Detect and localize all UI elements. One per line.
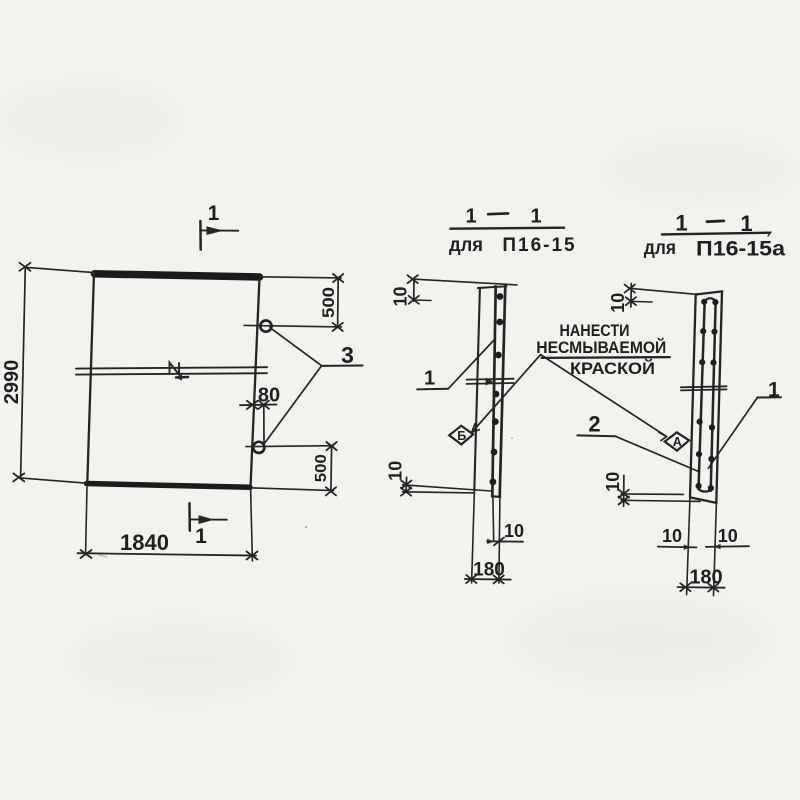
svg-text:для: для <box>644 238 676 259</box>
middle break line with arrow <box>467 378 514 381</box>
panel top cap <box>478 286 507 288</box>
svg-text:1: 1 <box>530 206 541 228</box>
right panel bottom cap <box>690 497 716 503</box>
mark diamond A <box>665 432 690 450</box>
svg-text:10: 10 <box>504 521 524 541</box>
dimension 1840 <box>86 487 87 553</box>
svg-text:1: 1 <box>675 210 687 235</box>
dimension 10 bottom (strip) <box>492 497 495 541</box>
dimension 10 bottom left (right view) <box>658 546 697 549</box>
svg-text:НЕСМЫВАЕМОЙ: НЕСМЫВАЕМОЙ <box>536 338 666 357</box>
svg-text:500: 500 <box>313 454 330 482</box>
svg-text:1: 1 <box>424 367 435 389</box>
leader from paint note to B <box>473 355 541 432</box>
svg-text:1: 1 <box>465 206 476 228</box>
dimension 180 (right view) <box>678 586 725 589</box>
rebar dots <box>490 293 504 485</box>
right panel top cap <box>696 291 723 294</box>
panel left edge <box>87 272 94 483</box>
svg-text:10: 10 <box>718 526 738 546</box>
mark diamond B <box>449 426 473 445</box>
bottom extension lines (right view) <box>687 498 690 595</box>
rebar loop left line <box>699 301 705 490</box>
svg-text:1: 1 <box>208 202 220 225</box>
lifting loop hook 1 <box>260 321 271 332</box>
svg-text:для: для <box>449 235 483 256</box>
right panel outer right line <box>716 291 722 502</box>
rebar strip left line <box>492 286 495 496</box>
top extension line <box>413 279 517 285</box>
svg-text:П16-15а: П16-15а <box>696 237 785 260</box>
dimension 180 (middle) <box>472 491 475 584</box>
svg-text:1840: 1840 <box>120 530 169 555</box>
panel right edge <box>251 278 260 486</box>
rebar loop bottom arc <box>699 489 711 492</box>
panel bottom edge (heavy) <box>87 484 251 488</box>
lifting loop hook 2 <box>253 442 264 453</box>
dimension 2990 <box>21 267 26 478</box>
panel top edge (heavy) <box>95 274 260 277</box>
svg-text:180: 180 <box>473 560 505 581</box>
svg-text:10: 10 <box>391 286 411 306</box>
dimension 10 top left <box>413 280 415 302</box>
svg-text:10: 10 <box>608 293 628 313</box>
svg-text:Б: Б <box>457 429 466 443</box>
svg-text:180: 180 <box>689 567 722 589</box>
leader from paint note to A <box>541 355 667 437</box>
svg-text:10: 10 <box>386 461 406 481</box>
svg-text:2990: 2990 <box>1 360 23 405</box>
svg-text:КРАСКОЙ: КРАСКОЙ <box>570 359 655 378</box>
rebar strip right line <box>500 286 506 497</box>
svg-text:П16-15: П16-15 <box>502 235 576 256</box>
right panel outer left line <box>690 294 696 497</box>
break N-mark <box>170 363 180 375</box>
svg-text:500: 500 <box>319 287 338 318</box>
right break line <box>681 386 727 387</box>
panel outer face line <box>474 288 480 490</box>
dimension 500 top <box>260 277 341 278</box>
rebar dots right view <box>696 299 719 492</box>
svg-text:2: 2 <box>588 412 600 437</box>
panel break line <box>76 367 267 368</box>
stray specks <box>305 526 307 528</box>
rebar loop right line <box>711 300 716 490</box>
svg-text:1: 1 <box>195 525 207 548</box>
section mark 1 bottom <box>188 503 191 531</box>
svg-text:10: 10 <box>662 526 682 546</box>
rebar loop top arc <box>705 298 716 301</box>
strip bottom cap <box>492 495 500 498</box>
svg-text:3: 3 <box>341 342 354 368</box>
dimension 10 top (right view) <box>630 284 632 307</box>
svg-text:А: А <box>673 435 682 449</box>
svg-text:10: 10 <box>603 472 623 492</box>
dimension 10 bottom right (right view) <box>706 545 749 548</box>
dimension 500 bottom <box>246 445 333 448</box>
label 3 with leaders to hooks <box>270 328 322 366</box>
section mark 1 top <box>199 221 202 250</box>
